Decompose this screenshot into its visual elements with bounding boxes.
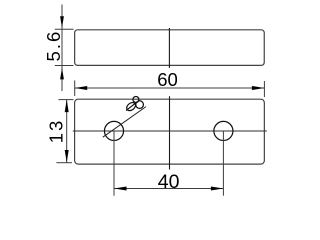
dimension 60 line bbox=[75, 87, 265, 89]
dimension 13 extension tick top bbox=[59, 99, 74, 101]
svg-text:5.6: 5.6 bbox=[43, 30, 64, 62]
dimension 60 arrow left bbox=[75, 86, 88, 90]
dimension 13 arrow up bbox=[65, 100, 69, 113]
hole left circle bbox=[104, 121, 123, 140]
dimension 60 arrow right bbox=[252, 86, 265, 90]
dimension 5.6 extension tick top bbox=[55, 28, 74, 30]
label diameter symbol bbox=[125, 101, 137, 112]
dimension 13 line bbox=[66, 100, 68, 163]
dimension 5.6 extension tick bottom bbox=[55, 65, 74, 67]
leader line for hole diameter bbox=[103, 107, 146, 138]
top view outline bbox=[75, 99, 265, 164]
dimension 13 extension tick bottom bbox=[56, 162, 72, 164]
dimension 5.6 arrow down bbox=[60, 16, 64, 28]
dimension 5.6 label bbox=[43, 30, 64, 62]
dimension 40 extension line right bbox=[222, 131, 224, 196]
svg-text:40: 40 bbox=[158, 171, 180, 193]
svg-text:60: 60 bbox=[157, 69, 178, 90]
side view outline bbox=[75, 30, 265, 66]
dimension 13 label bbox=[46, 119, 67, 144]
dimension 40 extension line left bbox=[113, 131, 115, 196]
dimension 60 label bbox=[157, 69, 178, 90]
dimension 40 arrow left bbox=[114, 187, 127, 191]
dimension 5.6 arrow up bbox=[60, 68, 64, 80]
dimension 5.6 line bbox=[61, 5, 63, 92]
dimension 60 extension line right bbox=[263, 81, 265, 97]
dimension 40 label bbox=[158, 171, 180, 193]
dimension 13 arrow down bbox=[65, 150, 69, 163]
label digit 8 bbox=[133, 97, 144, 109]
top view parting line bbox=[169, 96, 171, 169]
hole right circle bbox=[214, 121, 233, 140]
horizontal centerline bbox=[73, 130, 267, 132]
dimension 40 arrow right bbox=[211, 187, 224, 191]
dimension 60 extension line left bbox=[74, 80, 76, 96]
dimension 40 line bbox=[114, 188, 223, 190]
side view parting line bbox=[168, 28, 170, 68]
svg-text:13: 13 bbox=[46, 119, 67, 144]
